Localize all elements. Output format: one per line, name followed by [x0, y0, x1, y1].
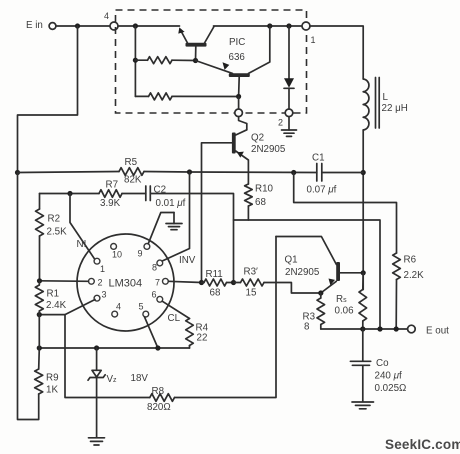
junction R5 / INV feedback	[187, 169, 192, 174]
junction Q1 emitter node	[318, 290, 323, 295]
svg-text:R7: R7	[106, 180, 119, 191]
junction Q1 base on sense line	[361, 270, 366, 275]
wire R5 to C1	[144, 172, 317, 173]
svg-text:Q2: Q2	[251, 133, 264, 144]
reference rail wire	[39, 347, 189, 349]
svg-text:E out: E out	[426, 326, 449, 337]
capacitor C2	[122, 185, 186, 210]
svg-text:4: 4	[104, 11, 109, 21]
zener diode Vz 18V	[88, 348, 148, 438]
resistor R1 2.4K	[35, 281, 66, 315]
svg-text:Co: Co	[376, 358, 389, 369]
inductor L 22uH	[363, 78, 408, 131]
junction C1 left / R6 branch	[291, 170, 296, 175]
svg-text:CL: CL	[168, 313, 181, 324]
pin 5	[139, 302, 149, 318]
diode inside module	[284, 26, 294, 109]
transistor T2 (PIC636 lower)	[196, 26, 270, 97]
box terminal 2	[278, 109, 293, 128]
svg-text:INV: INV	[179, 255, 196, 266]
wire node 4 to T1 emitter	[118, 25, 180, 27]
resistor R5	[18, 157, 145, 186]
resistor R6 2.2K	[393, 253, 424, 329]
svg-text:1K: 1K	[46, 385, 58, 396]
capacitor Co 240uF	[350, 329, 406, 402]
capacitor C1	[307, 153, 364, 196]
junction T2 collector at top rail	[267, 23, 272, 28]
wire node 1 to inductor	[310, 26, 364, 79]
node junction on input wire	[75, 23, 80, 28]
svg-text:SeekIC.com: SeekIC.com	[385, 437, 460, 452]
watermark SeekIC.com	[385, 437, 460, 452]
svg-text:C1: C1	[312, 153, 325, 164]
svg-text:18V: 18V	[131, 373, 149, 384]
wire R3-prime to Q1 emitter node	[264, 283, 321, 294]
wire pin 6 to R4	[162, 301, 189, 318]
pin 8	[152, 260, 163, 272]
junction R11 / R3-prime / C2 branch	[231, 280, 236, 285]
label CL	[168, 313, 181, 324]
resistor R7 3.9K	[40, 180, 123, 210]
wire E in to node 4	[56, 25, 110, 27]
resistor row2 (base resistor)	[135, 93, 238, 100]
wire pin 9 to bypass ground	[148, 213, 174, 244]
wire NI branch to pin 1	[70, 194, 95, 260]
resistor R4 22	[186, 319, 209, 349]
svg-text:R1: R1	[47, 289, 60, 300]
terminal E in	[26, 20, 56, 31]
wire top rail down to R row1	[134, 26, 136, 96]
wire C2 to R11/R3-prime junction	[150, 194, 233, 283]
wire box terminal to Q2 collector	[239, 117, 247, 130]
svg-text:9: 9	[138, 249, 143, 259]
svg-text:LM304: LM304	[109, 278, 143, 290]
svg-text:7: 7	[155, 278, 160, 288]
wire left rail bottom return	[18, 173, 39, 420]
svg-text:R9: R9	[46, 373, 59, 384]
terminal E out	[408, 325, 450, 336]
label PIC 636	[229, 37, 246, 63]
svg-text:3: 3	[102, 290, 107, 300]
svg-text:1: 1	[100, 264, 105, 274]
svg-text:NI: NI	[77, 239, 87, 250]
svg-text:E in: E in	[26, 20, 43, 31]
svg-text:15: 15	[246, 288, 257, 299]
output rail wire	[321, 328, 408, 330]
wire input feed down-left to left rail	[18, 26, 78, 173]
pin 3	[94, 290, 106, 302]
junction right drop	[377, 326, 382, 331]
transistor T1 (PIC636 upper)	[178, 27, 214, 61]
pin 7	[155, 278, 168, 288]
wire T1 collector run to node 1	[214, 25, 303, 27]
junction R6 bottom	[394, 326, 399, 331]
wire pin 7 to R11	[168, 281, 201, 282]
svg-text:R10: R10	[255, 184, 274, 195]
svg-text:2: 2	[98, 278, 103, 288]
resistor R2 2.5K	[36, 194, 68, 281]
svg-text:22 μH: 22 μH	[382, 103, 408, 114]
svg-text:R8: R8	[152, 386, 165, 397]
ground at Co	[352, 402, 374, 409]
resistor R3 8	[303, 293, 325, 333]
svg-text:68: 68	[255, 197, 266, 208]
svg-text:3.9K: 3.9K	[100, 198, 121, 209]
svg-text:0.01 μf: 0.01 μf	[156, 198, 186, 209]
svg-text:0.025Ω: 0.025Ω	[375, 383, 407, 394]
svg-text:4: 4	[116, 302, 121, 312]
wire T2 base to box terminal	[238, 97, 240, 110]
resistor R9 1K	[35, 348, 59, 396]
wire pin 3 and R1 bottom	[39, 300, 95, 315]
svg-text:8: 8	[304, 322, 310, 333]
junction diode at top rail	[286, 23, 291, 28]
resistor R8 820	[147, 386, 175, 413]
junction T1 base / T2 emitter	[193, 58, 198, 63]
junction row1 left	[133, 58, 138, 63]
resistor R3-prime 15	[234, 267, 265, 299]
junction L / C1	[361, 170, 366, 175]
junction T2 base row2	[236, 94, 241, 99]
pin 1	[94, 258, 105, 274]
op-amp regulator LM304 body	[77, 234, 174, 331]
svg-text:R6: R6	[404, 255, 417, 266]
svg-text:6: 6	[152, 290, 157, 300]
svg-text:R3′: R3′	[244, 267, 259, 278]
svg-text:2N2905: 2N2905	[251, 144, 286, 155]
svg-text:0.06: 0.06	[335, 306, 355, 317]
svg-text:2N2905: 2N2905	[285, 267, 320, 278]
label INV	[179, 255, 196, 266]
svg-text:820Ω: 820Ω	[147, 402, 171, 413]
wire pin 5 to reference rail	[145, 317, 158, 348]
pin 4	[112, 302, 121, 318]
svg-text:2: 2	[278, 118, 283, 128]
resistor R sense 0.06	[335, 273, 367, 329]
svg-text:R5: R5	[125, 157, 138, 168]
dashed enclosure PIC 636 module	[116, 10, 307, 113]
wire main output vertical	[362, 173, 364, 290]
junction Co	[360, 326, 365, 331]
svg-text:1: 1	[311, 35, 316, 45]
svg-text:2.4K: 2.4K	[46, 300, 67, 311]
wire R10 bottom rail to right drop	[234, 220, 381, 329]
junction pin 5	[155, 345, 160, 350]
pin 6	[152, 290, 163, 303]
pin 10	[111, 244, 122, 260]
svg-text:22: 22	[197, 333, 208, 344]
svg-text:L: L	[383, 92, 389, 103]
junction R1 bottom	[37, 312, 42, 317]
svg-text:R11: R11	[206, 269, 223, 280]
svg-text:2.2K: 2.2K	[404, 270, 425, 281]
junction left rail / R5 line	[15, 170, 20, 175]
svg-text:Q1: Q1	[285, 255, 298, 266]
svg-text:82K: 82K	[124, 175, 142, 186]
svg-text:240 μf: 240 μf	[375, 371, 402, 382]
svg-text:Vz: Vz	[107, 374, 118, 385]
transistor Q1 2N2905	[276, 237, 363, 294]
svg-text:5: 5	[139, 302, 144, 312]
svg-text:68: 68	[210, 288, 221, 299]
pin 9	[138, 244, 150, 259]
svg-text:8: 8	[152, 263, 157, 273]
svg-text:2.5K: 2.5K	[47, 227, 68, 238]
junction Vz top	[94, 345, 99, 350]
junction pin7 / Q2 base / R11	[199, 280, 204, 285]
transistor Q2 2N2905	[202, 130, 286, 283]
junction at resistor branch	[133, 23, 138, 28]
svg-text:10: 10	[112, 250, 122, 260]
svg-text:0.07 μf: 0.07 μf	[307, 185, 337, 196]
wire pin3 node down to R8	[65, 315, 150, 398]
wire R1 bottom to R9	[38, 315, 40, 348]
svg-text:636: 636	[229, 52, 246, 63]
terminal node 4	[104, 11, 118, 30]
resistor row1 (base resistor)	[135, 57, 195, 64]
ground at terminal 2	[282, 117, 297, 137]
terminal node 1	[302, 22, 316, 45]
resistor R11 68	[202, 269, 234, 299]
ground at pin 9 line	[166, 213, 182, 230]
svg-text:PIC: PIC	[229, 37, 245, 48]
main ground	[89, 438, 105, 445]
wire inductor to C1 junction	[362, 130, 364, 173]
svg-text:Rs: Rs	[336, 294, 347, 305]
pin 2	[89, 278, 103, 288]
junction R7 line / NI branch	[67, 191, 72, 196]
wire pin 2 to R1 top	[40, 280, 89, 283]
wire R8 to Q1 collector	[175, 237, 277, 398]
wire C1 branch to R6	[294, 173, 397, 254]
junction R9 top	[37, 345, 42, 350]
svg-text:R2: R2	[48, 214, 61, 225]
wire feedback down to pin 8 INV	[162, 172, 189, 261]
box terminal (base lead)	[235, 109, 243, 117]
junction R1 top	[37, 278, 42, 283]
resistor R10 68	[245, 184, 274, 221]
